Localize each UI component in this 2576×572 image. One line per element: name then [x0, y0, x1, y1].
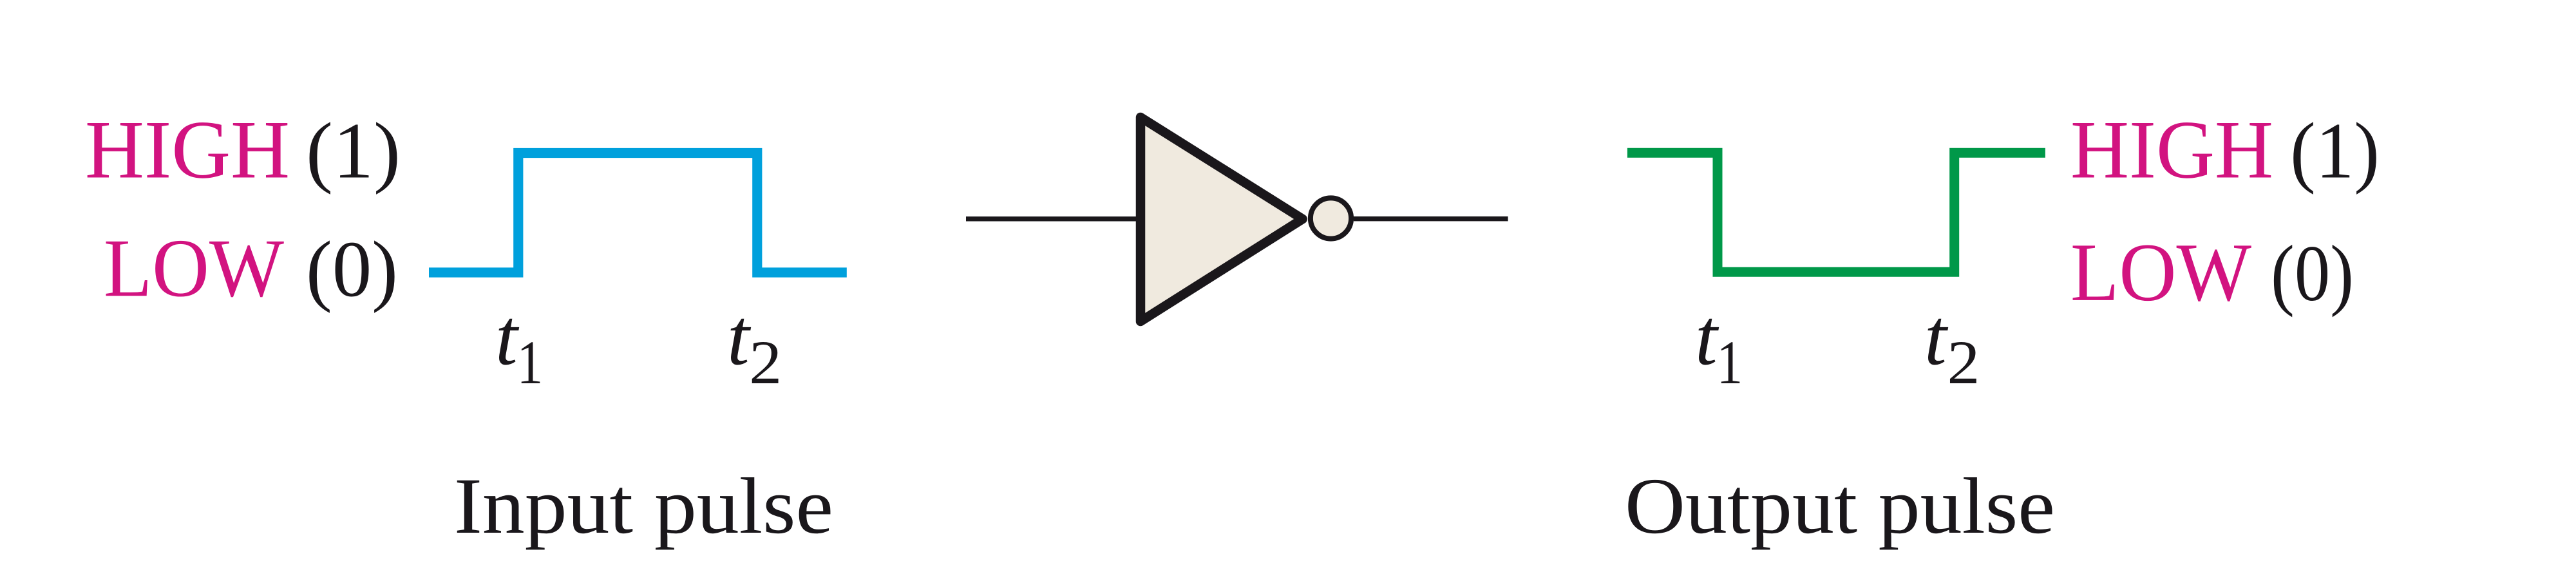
svg-text:1: 1: [517, 329, 544, 397]
svg-text:t: t: [495, 294, 520, 383]
svg-text:LOW: LOW: [104, 222, 284, 314]
svg-text:2: 2: [749, 329, 782, 397]
svg-text:(1): (1): [2290, 107, 2380, 195]
node t2 output: [1924, 294, 1980, 397]
inverter U1 triangle: [1141, 117, 1303, 321]
svg-text:HIGH: HIGH: [85, 104, 290, 196]
svg-text:t: t: [727, 294, 752, 383]
svg-text:t: t: [1695, 294, 1719, 383]
node t1 input: [495, 294, 543, 397]
wire output: [1354, 216, 1508, 221]
inverter bubble: [1311, 198, 1351, 238]
svg-text:t: t: [1924, 294, 1949, 383]
output pulse waveform: [1627, 153, 2045, 272]
node t2 input: [727, 294, 782, 397]
svg-text:(0): (0): [306, 225, 398, 313]
input pulse waveform: [429, 153, 847, 273]
svg-text:Input pulse: Input pulse: [454, 462, 833, 550]
svg-text:HIGH: HIGH: [2070, 104, 2273, 196]
node t1 output: [1695, 294, 1743, 397]
svg-text:(1): (1): [306, 107, 401, 195]
wire input: [966, 216, 1139, 221]
svg-text:Output pulse: Output pulse: [1625, 462, 2055, 550]
svg-text:(0): (0): [2271, 229, 2354, 318]
svg-text:LOW: LOW: [2070, 226, 2251, 318]
svg-text:2: 2: [1947, 329, 1980, 397]
svg-text:1: 1: [1717, 329, 1743, 397]
